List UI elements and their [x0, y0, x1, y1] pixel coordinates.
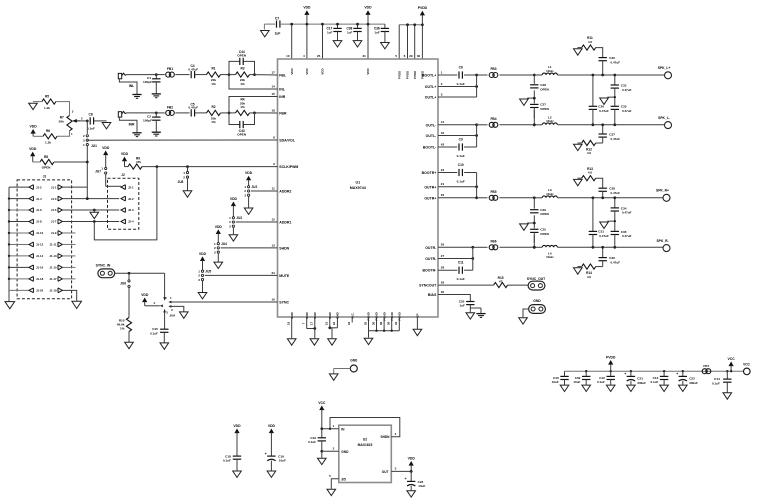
wire [175, 74, 189, 76]
svg-text:R2: R2 [211, 105, 215, 109]
svg-text:1uF: 1uF [374, 31, 380, 35]
svg-text:1%: 1% [120, 327, 125, 331]
svg-text:16: 16 [332, 322, 336, 326]
svg-text:GND: GND [341, 450, 349, 454]
capacitor C10 0.1uF [438, 172, 457, 174]
svg-text:26: 26 [441, 243, 445, 247]
svg-text:FB3: FB3 [490, 67, 496, 71]
svg-text:J1-1: J1-1 [51, 185, 57, 189]
svg-text:1uF: 1uF [347, 31, 353, 35]
connector SPK_R- [663, 245, 670, 252]
capacitor C33 0.47uF [611, 105, 619, 107]
wire [115, 272, 165, 274]
capacitor C36 0.47uF [602, 247, 604, 257]
jumper JU8 [187, 167, 189, 172]
svg-text:C27: C27 [540, 103, 546, 107]
wire [56, 102, 70, 116]
ground [233, 471, 242, 477]
svg-text:SPK_L+: SPK_L+ [658, 66, 671, 70]
svg-text:0.47uF: 0.47uF [622, 234, 632, 238]
ferrite bead FB6 [473, 246, 488, 248]
svg-text:BOOTL+: BOOTL+ [422, 74, 436, 78]
ground [574, 179, 583, 185]
svg-text:10uF: 10uF [279, 459, 286, 463]
ground [160, 343, 169, 349]
svg-text:INL: INL [129, 84, 134, 88]
svg-text:PVDD: PVDD [406, 70, 410, 79]
svg-text:PVDD: PVDD [606, 355, 616, 359]
svg-text:1%: 1% [211, 82, 216, 86]
ground [560, 385, 569, 391]
ground [287, 339, 296, 345]
ground [94, 120, 107, 122]
svg-text:MUTE: MUTE [279, 274, 290, 278]
ground [407, 491, 416, 497]
svg-text:36: 36 [371, 322, 375, 326]
svg-text:J1-7: J1-7 [51, 220, 57, 224]
resistor R14 4.0 [596, 266, 603, 268]
svg-text:23: 23 [441, 168, 445, 172]
ground [261, 31, 270, 37]
svg-text:J2-1: J2-1 [128, 185, 134, 189]
wire [500, 124, 535, 126]
wire [557, 197, 663, 199]
svg-text:C11: C11 [458, 261, 464, 265]
svg-text:OPEN: OPEN [540, 107, 549, 111]
svg-text:0.1uF: 0.1uF [150, 331, 158, 335]
resistor R3 20k feedback [229, 74, 236, 76]
wire to FB pin [255, 74, 278, 76]
capacitor C23 10uF [410, 471, 412, 481]
wire [168, 305, 171, 308]
svg-text:SHDN: SHDN [279, 246, 289, 250]
svg-text:JU8: JU8 [177, 180, 183, 184]
svg-text:+: + [676, 372, 678, 376]
wire [195, 74, 207, 76]
svg-text:MAX1615: MAX1615 [358, 443, 373, 447]
capacitor C12 0.1uF [610, 370, 612, 372]
ground [627, 385, 636, 391]
svg-text:JU9: JU9 [169, 313, 175, 317]
power VDD [30, 152, 35, 157]
chassis ground [470, 307, 481, 309]
svg-text:10uH: 10uH [546, 192, 553, 196]
ground [574, 144, 583, 150]
wire [307, 328, 315, 330]
svg-text:J1-3: J1-3 [51, 197, 57, 201]
svg-text:C10: C10 [458, 163, 464, 167]
connector pin J1-4 [9, 198, 29, 200]
ground [152, 131, 161, 133]
svg-text:0.1uF: 0.1uF [87, 126, 95, 130]
svg-text:SYNC_IN: SYNC_IN [96, 264, 111, 268]
svg-text:C26: C26 [598, 105, 604, 109]
svg-text:24: 24 [271, 271, 275, 275]
svg-text:C7: C7 [275, 17, 279, 21]
svg-text:14: 14 [271, 84, 275, 88]
svg-text:1uF: 1uF [275, 31, 281, 35]
svg-text:C8: C8 [89, 112, 93, 116]
resistor R2 20k [207, 110, 221, 115]
wire [438, 246, 473, 248]
power PVDD [608, 360, 613, 365]
connector SPK_L- [665, 122, 672, 129]
svg-text:0.1uF: 0.1uF [223, 459, 231, 463]
svg-text:27: 27 [441, 254, 445, 258]
connector pin J1-2 [9, 186, 29, 188]
svg-text:OUTL+: OUTL+ [425, 96, 437, 100]
connector pin J1-20 [9, 289, 29, 291]
svg-text:VCC: VCC [743, 363, 750, 367]
svg-text:0.47uF: 0.47uF [622, 211, 632, 215]
wire [557, 74, 664, 76]
ground [180, 312, 189, 318]
svg-text:0.47uF: 0.47uF [599, 109, 609, 113]
svg-text:OUTR+: OUTR+ [424, 196, 436, 200]
svg-text:SPK_L-: SPK_L- [658, 116, 670, 120]
svg-text:4.0: 4.0 [587, 151, 592, 155]
wire PGND rail [369, 330, 400, 332]
svg-text:VDD: VDD [364, 6, 372, 10]
resistor R5 1.2k [42, 99, 56, 104]
svg-text:PVDD: PVDD [418, 6, 428, 10]
svg-text:ADDR1: ADDR1 [279, 221, 291, 225]
ground J1-5 net [93, 210, 95, 212]
wire [500, 246, 535, 248]
wire [523, 309, 529, 317]
jumper JU1 [86, 121, 88, 134]
svg-text:29: 29 [409, 54, 413, 58]
power VDD [409, 461, 414, 466]
power VDD [365, 10, 370, 15]
svg-text:33: 33 [347, 322, 351, 326]
capacitor C20 1uF BIAS [438, 295, 470, 302]
svg-text:J1-19: J1-19 [49, 289, 57, 293]
svg-text:1%: 1% [240, 82, 245, 86]
capacitor C9 0.1uF [438, 146, 457, 148]
ground [183, 191, 192, 197]
potentiometer R7 50k [67, 115, 72, 130]
ground [606, 385, 615, 391]
ground [574, 268, 583, 274]
svg-text:EP: EP [416, 313, 420, 317]
wire [438, 258, 473, 260]
svg-text:1.2k: 1.2k [45, 141, 51, 145]
svg-text:J1-14: J1-14 [36, 254, 44, 258]
svg-text:10uF: 10uF [418, 484, 425, 488]
wire [334, 368, 351, 370]
svg-text:+: + [405, 477, 407, 481]
wire [557, 246, 663, 248]
connector pin J1-8 [9, 221, 29, 223]
svg-text:+: + [624, 372, 626, 376]
ground [353, 41, 362, 47]
terminal VCC [744, 368, 751, 375]
svg-text:FB7: FB7 [703, 364, 709, 368]
connector pin J2-4 [121, 219, 125, 224]
capacitor C44 OPEN parallel [229, 61, 240, 74]
ferrite bead FB2 [156, 112, 164, 114]
svg-text:0.47uF: 0.47uF [611, 260, 621, 264]
svg-text:OUTR-: OUTR- [425, 257, 437, 261]
wire SYNC [168, 301, 171, 304]
svg-text:VCC: VCC [728, 357, 736, 361]
svg-text:SDA/VOL: SDA/VOL [279, 139, 295, 143]
svg-text:R6: R6 [46, 129, 50, 133]
svg-text:J1-4: J1-4 [36, 197, 42, 201]
resistor R11 4.0 [578, 47, 582, 49]
jumper JU2 ADDR2 [246, 176, 251, 181]
connector pin J1-6 [9, 209, 29, 211]
svg-text:10uH: 10uH [546, 69, 553, 73]
test point GND [350, 365, 357, 372]
svg-text:47: 47 [499, 280, 503, 284]
svg-text:35: 35 [363, 322, 367, 326]
wire jack sleeve [119, 117, 137, 132]
svg-text:0.47uF: 0.47uF [611, 60, 621, 64]
resistor R6 1.2k [43, 134, 57, 139]
connector SPK_R+ [663, 194, 670, 201]
svg-text:OPEN: OPEN [540, 232, 549, 236]
ground [327, 489, 336, 495]
svg-text:C34: C34 [621, 206, 627, 210]
svg-text:0.47uF: 0.47uF [188, 106, 198, 110]
wire VDD rail [280, 23, 385, 25]
connector J1 box [17, 180, 72, 299]
svg-text:J1-10: J1-10 [36, 231, 44, 235]
svg-text:10uH: 10uH [546, 119, 553, 123]
wire [438, 124, 477, 126]
wire [414, 25, 416, 59]
svg-text:J2-3: J2-3 [128, 208, 134, 212]
ground [413, 329, 422, 335]
svg-text:VDD: VDD [215, 225, 223, 229]
capacitor C14 0.1uF [726, 370, 728, 372]
wire J1 ground bus [8, 187, 10, 299]
svg-text:J1-6: J1-6 [36, 208, 42, 212]
svg-text:10: 10 [286, 54, 290, 58]
svg-text:INR: INR [279, 95, 286, 99]
svg-text:0.47uF: 0.47uF [599, 234, 609, 238]
svg-text:BOOTR+: BOOTR+ [422, 171, 437, 175]
svg-text:1uF: 1uF [327, 31, 333, 35]
ground [607, 96, 615, 98]
svg-text:JU2: JU2 [251, 185, 257, 189]
svg-text:50k: 50k [59, 119, 64, 123]
capacitor C30 0.47uF [596, 48, 603, 58]
ferrite bead FB7 [702, 369, 707, 374]
ground [660, 385, 669, 391]
wire [54, 161, 87, 163]
capacitor C43 OPEN parallel [229, 113, 240, 125]
capacitor C2 100pF [155, 112, 158, 115]
svg-text:18: 18 [271, 108, 275, 112]
svg-text:28: 28 [441, 266, 445, 270]
svg-text:19: 19 [287, 322, 291, 326]
svg-text:29: 29 [441, 281, 445, 285]
svg-text:30: 30 [441, 290, 445, 294]
ground [527, 97, 534, 99]
power VDD [304, 10, 309, 15]
wire [291, 24, 293, 59]
wire [421, 25, 423, 59]
wire SCLK/PWM [142, 166, 278, 168]
svg-text:4.0: 4.0 [587, 275, 592, 279]
svg-text:0.47uF: 0.47uF [622, 88, 632, 92]
ground [132, 132, 141, 134]
wire [175, 112, 189, 114]
svg-text:VDD: VDD [408, 456, 416, 460]
svg-text:OUTL-: OUTL- [426, 134, 438, 138]
svg-text:VCC: VCC [318, 401, 326, 405]
wire jack sleeve [119, 79, 137, 94]
svg-text:JU5: JU5 [205, 269, 211, 273]
svg-text:0.1uF: 0.1uF [597, 380, 605, 384]
svg-text:VDD: VDD [305, 68, 309, 75]
capacitor C4 0.47uF [190, 71, 192, 78]
svg-text:JU1: JU1 [91, 144, 97, 148]
svg-text:10: 10 [271, 297, 275, 301]
svg-text:FB4: FB4 [490, 117, 496, 121]
svg-text:VDD: VDD [199, 252, 207, 256]
inductor L4 10uH [534, 246, 542, 248]
svg-text:1.2k: 1.2k [44, 106, 50, 110]
wire PVDD rail [399, 24, 422, 26]
svg-text:VDD: VDD [268, 424, 276, 428]
jumper JU9 SYNC select [142, 298, 147, 303]
capacitor C38 [357, 24, 359, 28]
svg-text:OPEN: OPEN [540, 212, 549, 216]
svg-text:J1-20: J1-20 [36, 289, 44, 293]
svg-text:13: 13 [271, 243, 275, 247]
svg-text:C32: C32 [621, 83, 627, 87]
power VDD [31, 129, 36, 134]
jumper JU5 MUTE [200, 256, 205, 261]
jumper JU6 [128, 280, 130, 282]
resistor R9 47k [125, 166, 129, 168]
op-amp U1 MAX9744 body [278, 59, 439, 317]
svg-text:SCLK/PWM: SCLK/PWM [279, 165, 298, 169]
resistor R12 4.0 [596, 142, 603, 144]
svg-text:C30: C30 [609, 56, 615, 60]
svg-text:0.1uF: 0.1uF [457, 277, 465, 281]
power VCC [729, 362, 734, 367]
resistor R1 20k [207, 72, 221, 77]
svg-text:BIAS: BIAS [428, 293, 437, 297]
svg-text:C35: C35 [621, 230, 627, 234]
inductor L3 10uH [534, 197, 542, 199]
svg-text:J1-13: J1-13 [49, 254, 57, 258]
svg-text:FB6: FB6 [490, 240, 496, 244]
svg-text:C29: C29 [540, 208, 546, 212]
svg-text:JU6: JU6 [120, 281, 126, 285]
ground [364, 338, 373, 344]
svg-text:21: 21 [441, 182, 445, 186]
svg-text:12: 12 [271, 217, 275, 221]
svg-text:J2: J2 [121, 173, 125, 177]
svg-text:100pF: 100pF [143, 80, 152, 84]
ground [329, 374, 338, 380]
svg-text:JU7: JU7 [95, 170, 101, 174]
ground [72, 301, 82, 308]
svg-text:330uF: 330uF [689, 381, 698, 385]
svg-text:VDD: VDD [141, 293, 149, 297]
svg-text:C31: C31 [598, 230, 604, 234]
wire pin 1 IN [322, 428, 339, 430]
connector pin J2-2 [121, 196, 125, 201]
svg-text:J1-9: J1-9 [51, 231, 57, 235]
svg-text:SYNC: SYNC [279, 301, 289, 305]
ground [152, 93, 161, 95]
svg-text:17: 17 [310, 322, 314, 326]
svg-text:43: 43 [441, 142, 445, 146]
resistor R8 OPEN [40, 159, 54, 164]
resistor R4 20k feedback [229, 112, 236, 114]
svg-text:11: 11 [272, 186, 276, 190]
ground [527, 222, 534, 224]
wire [438, 186, 477, 188]
svg-text:ADDR2: ADDR2 [279, 190, 291, 194]
svg-text:VDD: VDD [245, 171, 253, 175]
ground [132, 94, 141, 96]
svg-text:0.1uF: 0.1uF [712, 381, 720, 385]
svg-text:41: 41 [441, 120, 445, 124]
pad SYNC_IN [98, 269, 115, 278]
ground [214, 262, 223, 268]
svg-text:3/5: 3/5 [341, 478, 346, 482]
svg-text:J1-17: J1-17 [49, 277, 57, 281]
capacitor C35 0.47uF [611, 230, 619, 232]
svg-text:C9: C9 [459, 137, 463, 141]
svg-text:J1-8: J1-8 [36, 220, 42, 224]
svg-text:17: 17 [271, 70, 275, 74]
connector pin J1-16 [9, 266, 29, 268]
svg-text:22: 22 [441, 193, 445, 197]
ground [519, 318, 528, 324]
capacitor C18 0.1uF [234, 429, 239, 434]
wire [438, 197, 477, 199]
capacitor C36 [384, 24, 386, 28]
svg-text:U2: U2 [363, 438, 367, 442]
svg-text:+: + [265, 452, 267, 456]
capacitor C7 [264, 23, 275, 25]
svg-text:BOOTR-: BOOTR- [422, 269, 437, 273]
capacitor C21 330uF [630, 370, 632, 372]
svg-text:OUTR-: OUTR- [425, 246, 437, 250]
wire to IN pin [229, 97, 278, 113]
wire [500, 197, 535, 199]
connector J2 box [108, 178, 139, 229]
svg-text:INR: INR [129, 123, 135, 127]
svg-text:C25: C25 [540, 227, 546, 231]
wire to IN pin [229, 75, 278, 89]
wire to FB pin [255, 112, 278, 114]
svg-text:VDD: VDD [30, 124, 38, 128]
svg-text:J1-18: J1-18 [36, 277, 44, 281]
wire SDA/VOL [87, 139, 277, 141]
connector pin J1-12 [9, 243, 29, 245]
svg-text:42: 42 [441, 131, 445, 135]
svg-text:15: 15 [325, 322, 329, 326]
ground [574, 49, 583, 55]
ground [229, 235, 238, 241]
connector pin J2-3 [121, 208, 125, 213]
wire pin 2 GND [322, 450, 339, 452]
svg-text:JU4: JU4 [221, 242, 227, 246]
wire [322, 24, 324, 59]
svg-text:0.47uF: 0.47uF [611, 191, 621, 195]
ground [679, 385, 688, 391]
